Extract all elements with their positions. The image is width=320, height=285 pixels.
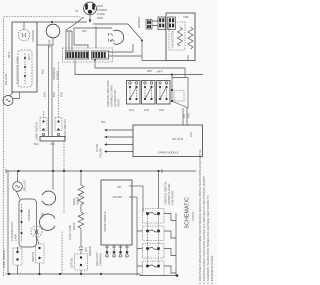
ballast B1 (top) [3,96,13,106]
bake element R1 [78,171,84,205]
plug P1 [84,2,97,15]
svg-text:SPARK MODULE: SPARK MODULE [103,211,107,232]
convection dashed inner [169,22,185,50]
terminal board TB1 dashed box [63,48,113,62]
svg-text:STARTER: STARTER [27,209,31,221]
svg-text:CORD: CORD [97,12,105,16]
ballast B2 (bottom) [13,182,23,192]
wire pair to lamp switches [49,45,53,137]
svg-text:LAMP SWITCH: LAMP SWITCH [35,122,39,140]
svg-text:2P3: 2P3 [84,247,88,252]
wire long line B y74.5 [75,60,203,75]
wire assembly out y45 [37,44,53,46]
svg-text:CONVECTION: CONVECTION [171,31,175,48]
svg-text:HIGH VOLT: HIGH VOLT [95,252,99,266]
svg-text:TERMINAL: TERMINAL [52,66,56,80]
svg-text:SHOWN CLOSED: SHOWN CLOSED [167,184,171,205]
wire plug ground arrow [89,15,91,21]
wire igniter feed left [142,186,144,212]
connector marks 2P3 [79,247,83,250]
svg-text:BK/WHT: BK/WHT [88,245,92,256]
svg-text:BLK: BLK [52,92,56,97]
svg-text:NORMALLY OPEN: NORMALLY OPEN [110,85,114,107]
node bottom dots [8,273,10,275]
svg-text:GY RD: GY RD [95,144,99,152]
svg-text:2P8: 2P8 [147,69,152,73]
wire starter top [23,22,25,29]
switch SU4 right [171,74,188,109]
wire L3 top [63,171,65,214]
wire three drops to terminal [66,30,72,51]
bus y171 [6,170,196,172]
svg-text:GY/OR: GY/OR [48,40,52,48]
switch SW4 bottom [36,237,45,274]
connector box X16 [40,137,65,142]
svg-text:LIGHT SWITCH: LIGHT SWITCH [63,119,67,138]
svg-text:POWER: POWER [97,8,107,12]
resistor RC1 coil [178,27,183,46]
svg-text:BLK: BLK [186,55,190,60]
svg-text:WHT: WHT [157,70,163,74]
svg-text:LAMP SWITCH: LAMP SWITCH [2,250,6,268]
svg-text:START: START [117,98,121,107]
wire VIOL/BK [129,196,137,198]
wire box to ballast [10,93,14,97]
wire 34T [129,185,143,187]
wire L2 top [52,171,54,190]
wire L3 bottom [61,232,63,275]
wire top feed y22 [37,21,87,23]
svg-text:BLK: BLK [34,142,39,146]
svg-text:FLUORESCENT: FLUORESCENT [10,221,14,241]
svg-text:2P5: 2P5 [110,39,115,43]
svg-text:OVEN LAMP: OVEN LAMP [68,225,72,240]
starter S2 (bottom) [31,226,42,237]
connector arrows spark inputs [104,129,107,153]
wire strip2 to x133 [108,44,133,52]
svg-text:(LATCH): (LATCH) [70,258,74,268]
igniter IG1 [143,209,177,224]
svg-text:1. DISCONNECT RANGE FROM POWER: 1. DISCONNECT RANGE FROM POWER SUPPLY BE… [198,149,202,284]
svg-text:VIOL/BK: VIOL/BK [112,195,122,199]
convection box U2 [166,13,195,61]
svg-text:NOTES:: NOTES: [191,211,195,221]
svg-text:SCHEMATIC: SCHEMATIC [185,197,191,229]
connector block J1 [158,17,166,30]
svg-text:WHT: WHT [27,54,31,60]
wire BR TAN pair [183,108,187,125]
lamp switch SW3 bottom [13,247,22,274]
svg-text:34T: 34T [117,185,122,189]
igniter IG3 [143,244,177,259]
wire igniter collector [175,213,177,276]
spark module A box [133,125,203,157]
svg-text:3. SCHEMATIC SHOWN WITH POWER: 3. SCHEMATIC SHOWN WITH POWER OFF AND RE… [206,195,210,284]
wire long line A y68 [95,60,185,78]
svg-text:BR: BR [182,114,186,118]
terminal strip TS2 [92,51,109,59]
left rail [7,171,9,274]
wire viol down [136,197,138,276]
wire switch col A feed [43,111,45,118]
igniter IG2 [143,226,177,241]
wire igniter left dashes [148,215,159,264]
svg-text:BALLAST: BALLAST [4,73,8,85]
svg-text:VIOL BK: VIOL BK [99,148,103,158]
fluorescent lamp FL1 (top) [18,50,32,87]
spark module B box [101,180,132,245]
svg-text:GRN: GRN [97,4,103,8]
wire ground dashed left rail [3,18,5,277]
svg-text:CN8: CN8 [183,15,189,19]
wire ballast right link [13,92,20,99]
motor M1 (top center) [109,30,124,44]
svg-text:FOR START: FOR START [171,190,175,205]
svg-text:BROIL: BROIL [72,222,76,230]
svg-text:SWITCH: SWITCH [31,252,35,262]
oven switch S3 [75,254,88,274]
svg-text:FLUORESCENT LAMP: FLUORESCENT LAMP [16,57,20,84]
svg-text:BLK/WHT: BLK/WHT [137,16,141,28]
svg-text:SURFACE SWITCH: SURFACE SWITCH [164,182,168,205]
wire plug drop fan [66,17,84,30]
connector CN2 small [146,20,152,30]
wire ballast 2 to lamp [16,191,20,200]
resistor RC2 coil [188,27,193,49]
svg-text:BALLAST: BALLAST [23,179,27,191]
svg-text:2P6: 2P6 [82,29,87,33]
node top feed [51,21,53,23]
spark module B pins [105,245,129,257]
svg-text:2. DOOR UNLOCKED, OVEN DOOR CL: 2. DOOR UNLOCKED, OVEN DOOR CLOSED, ALL … [202,175,206,284]
wire strip2 to conv [108,41,166,61]
node motor feed [141,40,143,42]
broil element R2 [78,205,84,246]
wire lamp L1 down [52,38,54,45]
wire spark inputs [107,130,133,152]
wire ballast 2 top [17,171,19,182]
svg-text:40A 2P12: 40A 2P12 [172,137,184,141]
svg-text:2C6: 2C6 [189,132,193,137]
svg-text:SU2: SU2 [144,108,150,112]
svg-text:BLK: BLK [43,92,47,97]
wire ground dashed top run to plug [4,16,81,18]
svg-text:SU3: SU3 [159,108,165,112]
svg-text:SPARK MODULE: SPARK MODULE [158,151,179,155]
node bus dots [17,170,19,172]
svg-text:GRD: GRD [97,16,103,20]
wire rect run [74,28,112,45]
svg-text:BLU: BLU [41,69,45,74]
box fluorescent assembly (top) [12,22,37,92]
svg-text:2P2: 2P2 [101,120,106,124]
svg-text:SU1: SU1 [129,108,135,112]
wire y24 right of plug [93,24,142,40]
svg-text:P1: P1 [75,9,79,13]
svg-text:SURFACE SWITCHES: SURFACE SWITCHES [106,80,110,107]
wire switch col B feed [58,62,60,118]
lamp L3 [40,214,55,230]
lamp switch SW1 [40,118,47,136]
svg-text:CLOSED FOR: CLOSED FOR [113,90,117,107]
fluorescent lamp FL2 (bottom) [19,199,37,247]
svg-text:4. 8101P546-60 RANGE: 4. 8101P546-60 RANGE [210,255,214,284]
wire plug center drop [95,26,97,48]
svg-text:LAMP: LAMP [14,234,18,241]
svg-text:BLK: BLK [60,92,64,97]
svg-text:TERMINAL: TERMINAL [99,252,103,266]
surface switch SU3 [157,81,171,105]
surface switch SU2 [142,81,156,105]
svg-text:3400W: 3400W [76,196,80,205]
lamp circle L1 (door switch lamp) [46,24,60,38]
wire to blocks [152,21,158,26]
svg-text:WHT: WHT [7,52,11,58]
surface switch SU1 [127,81,141,105]
svg-text:BAKE: BAKE [72,198,76,205]
light switch SW2 [55,118,62,136]
starter S1 (top) [18,29,30,41]
svg-text:BOARD: BOARD [56,71,60,80]
connector block J2 [168,17,176,30]
igniter IG4 [143,261,177,276]
svg-text:X16: X16 [50,142,55,146]
node A start [94,59,96,61]
wire igniter left stubs [137,231,143,266]
terminal strip TS1 [66,51,89,59]
svg-text:STARTER: STARTER [31,30,35,42]
wire risers to bus y171 [52,141,54,171]
bottom bus [8,274,177,276]
wire igniter right rail from bus [158,171,160,209]
lamp L2 [42,191,55,205]
